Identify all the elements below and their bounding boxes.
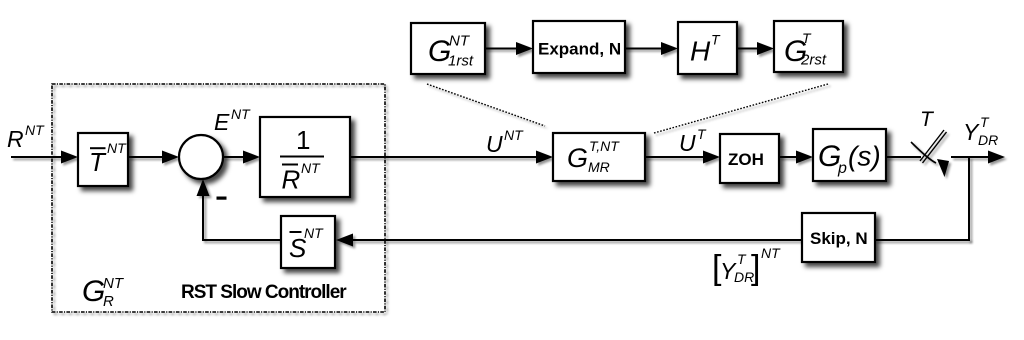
wire: feedback into Skip block [875,239,970,241]
wire: T-bar block to summing junction [128,151,179,164]
block ZOH [720,134,779,183]
sampler label T [920,108,935,131]
block G2rst [774,21,843,72]
wire: H block to G2rst block [737,42,774,55]
caption RST Slow Controller [181,282,347,303]
wire: Gp(s) block to sampler [886,156,921,158]
summing junction [179,135,223,179]
svg-text:2rst: 2rst [800,52,827,69]
dotted link: G2rst down to G_MR [654,84,828,133]
wire: ZOH block to Gp(s) block [779,151,813,164]
svg-text:]: ] [751,249,760,287]
svg-text:Skip, N: Skip, N [810,229,868,248]
svg-text:T: T [802,30,812,46]
node label U^NT [486,127,524,157]
svg-text:1: 1 [296,125,310,155]
svg-text:1rst: 1rst [448,53,474,70]
block Gp(s) [813,129,886,181]
dashed container box: RST Slow Controller subsystem [52,84,385,312]
node label G_R^NT (subsystem transfer function) [82,275,125,310]
svg-text:NT: NT [107,140,127,156]
dotted link: G1rst down to G_MR [427,84,545,126]
svg-text:E: E [214,109,230,135]
svg-text:R: R [282,165,301,195]
svg-text:NT: NT [231,106,251,122]
svg-text:G: G [82,275,105,308]
svg-text:NT: NT [301,160,321,176]
svg-text:H: H [690,36,711,67]
wire: S-bar block up into summing junction (minus) [197,179,282,241]
wire: sampler to output arrow (Y_DR) [951,151,1005,164]
svg-text:NT: NT [103,275,125,292]
node label R^NT [7,122,45,152]
block H^T [678,22,737,74]
svg-text:T: T [711,32,721,48]
svg-text:T: T [737,251,747,267]
svg-text:RST Slow Controller: RST Slow Controller [181,282,347,303]
svg-text:MR: MR [588,159,610,175]
wire: summing junction to 1/R block [223,151,260,164]
sampler switch T [911,130,949,177]
minus sign at summing junction [217,197,227,200]
wire: G1rst to Expand block [485,42,533,55]
node label U^T [679,126,707,156]
svg-text:NT: NT [449,33,471,50]
svg-text:Expand, N: Expand, N [538,40,621,59]
block G1rst (top chain) [411,23,485,74]
svg-text:(s): (s) [848,141,881,172]
svg-text:T: T [697,126,707,142]
block G_MR [553,133,645,181]
block Skip, N [802,213,875,262]
node label Y_DR^T [963,114,998,148]
svg-text:T: T [980,114,990,130]
svg-text:NT: NT [25,122,45,138]
svg-text:U: U [486,131,503,157]
wire: Expand block to H block [625,42,678,55]
node label [Y_DR^T]^NT [712,245,781,287]
wire: R input into T-bar block [11,151,78,164]
node label E^NT [214,106,251,135]
svg-text:U: U [679,130,696,156]
block S-bar [281,216,335,268]
svg-text:T,NT: T,NT [589,138,620,154]
wire: G_MR block to ZOH block (U^T) [645,151,720,164]
block T-bar [78,133,128,186]
svg-text:p: p [837,160,847,177]
svg-text:DR: DR [978,132,998,148]
svg-text:T: T [89,147,107,177]
block Expand, N [533,21,625,73]
svg-text:G: G [567,143,588,173]
svg-text:R: R [103,293,114,310]
svg-text:R: R [7,126,24,152]
svg-text:ZOH: ZOH [728,150,764,169]
block 1/R-bar [260,117,350,197]
svg-text:T: T [920,108,935,131]
wire: Skip block to S-bar block [336,234,802,247]
svg-text:NT: NT [761,245,781,261]
svg-text:NT: NT [304,225,324,241]
svg-text:NT: NT [504,127,524,143]
wire: 1/R block to G_MR block (U^NT) [350,151,553,164]
wire: feedback vertical drop from output node [968,157,970,241]
